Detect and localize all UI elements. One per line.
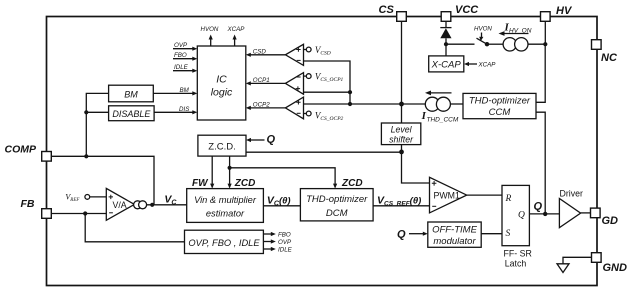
svg-text:XCAP: XCAP xyxy=(478,62,497,69)
svg-text:THD-optimizer: THD-optimizer xyxy=(469,96,531,107)
svg-text:V/A: V/A xyxy=(113,200,127,210)
svg-text:FB: FB xyxy=(21,198,35,210)
svg-text:COMP: COMP xyxy=(5,144,37,156)
svg-text:CSD: CSD xyxy=(253,48,267,55)
svg-text:Q: Q xyxy=(397,229,406,241)
svg-text:shifter: shifter xyxy=(389,134,414,144)
svg-text:FF- SR: FF- SR xyxy=(504,249,532,259)
svg-text:IDLE: IDLE xyxy=(278,247,293,254)
svg-text:Latch: Latch xyxy=(505,259,527,269)
svg-text:HV_ON: HV_ON xyxy=(509,28,532,35)
svg-text:OVP, FBO , IDLE: OVP, FBO , IDLE xyxy=(188,238,260,248)
svg-text:FW: FW xyxy=(192,178,209,189)
svg-text:THD-optimizer: THD-optimizer xyxy=(306,194,368,205)
svg-text:X-CAP: X-CAP xyxy=(431,60,462,71)
svg-text:HV: HV xyxy=(556,5,573,17)
svg-text:Driver: Driver xyxy=(560,189,584,199)
svg-text:VREF: VREF xyxy=(65,193,80,204)
svg-text:ZCD: ZCD xyxy=(234,178,256,189)
svg-text:THD_CCM: THD_CCM xyxy=(427,117,459,124)
svg-text:IDLE: IDLE xyxy=(174,64,189,71)
svg-text:NC: NC xyxy=(601,52,618,64)
svg-text:BM: BM xyxy=(180,87,190,94)
svg-text:VC(θ): VC(θ) xyxy=(267,194,291,207)
svg-text:OVP: OVP xyxy=(278,239,292,246)
svg-text:DISABLE: DISABLE xyxy=(112,109,151,119)
svg-text:FBO: FBO xyxy=(174,52,187,59)
svg-text:IC: IC xyxy=(216,74,227,86)
svg-text:VCS_OCP1: VCS_OCP1 xyxy=(315,71,344,83)
svg-text:CS: CS xyxy=(379,4,395,16)
svg-text:VCS_REF(θ): VCS_REF(θ) xyxy=(377,195,421,208)
svg-text:HVON: HVON xyxy=(201,26,219,33)
svg-text:OCP2: OCP2 xyxy=(253,101,270,108)
svg-text:Level: Level xyxy=(391,125,413,135)
svg-text:estimator: estimator xyxy=(206,209,245,219)
svg-text:OVP: OVP xyxy=(174,42,188,49)
svg-text:VCC: VCC xyxy=(455,4,479,16)
svg-text:S: S xyxy=(506,229,511,239)
svg-text:OCP1: OCP1 xyxy=(253,77,270,84)
svg-text:DIS: DIS xyxy=(179,106,190,113)
svg-text:R: R xyxy=(505,194,512,204)
svg-text:PWM1: PWM1 xyxy=(434,191,460,201)
svg-text:CCM: CCM xyxy=(489,107,511,118)
svg-text:modulator: modulator xyxy=(433,236,476,247)
svg-text:XCAP: XCAP xyxy=(227,26,246,33)
svg-text:HVON: HVON xyxy=(474,26,492,33)
svg-text:Q: Q xyxy=(267,134,276,146)
svg-text:GD: GD xyxy=(602,215,619,227)
svg-text:VCS_OCP2: VCS_OCP2 xyxy=(315,110,344,122)
svg-text:GND: GND xyxy=(603,262,628,274)
svg-text:Vin & multiplier: Vin & multiplier xyxy=(194,195,257,205)
svg-text:DCM: DCM xyxy=(326,208,348,219)
svg-text:VCSD: VCSD xyxy=(315,45,331,57)
svg-text:OFF-TIME: OFF-TIME xyxy=(432,225,478,236)
svg-text:Q: Q xyxy=(518,211,525,221)
svg-text:FBO: FBO xyxy=(278,232,291,239)
svg-text:VC: VC xyxy=(164,194,177,207)
svg-text:Z.C.D.: Z.C.D. xyxy=(208,142,235,153)
svg-text:ZCD: ZCD xyxy=(341,178,363,189)
svg-text:logic: logic xyxy=(211,87,233,99)
svg-text:BM: BM xyxy=(124,90,138,100)
svg-text:Q: Q xyxy=(534,201,543,213)
